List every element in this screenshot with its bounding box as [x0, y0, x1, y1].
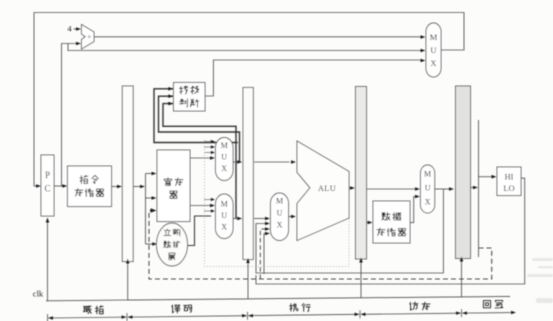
svg-text:U: U — [430, 45, 436, 55]
svg-text:X: X — [221, 164, 227, 173]
svg-text:ALU: ALU — [318, 184, 336, 193]
svg-text:HI: HI — [505, 172, 514, 182]
svg-text:P: P — [45, 170, 50, 180]
svg-text:M: M — [424, 170, 431, 179]
svg-text:clk: clk — [33, 289, 44, 299]
svg-text:X: X — [277, 221, 283, 230]
svg-text:+: + — [87, 32, 91, 41]
svg-text:LO: LO — [503, 183, 514, 193]
svg-text:M: M — [221, 200, 228, 209]
svg-text:M: M — [430, 32, 438, 42]
svg-text:U: U — [277, 209, 283, 218]
svg-text:X: X — [425, 198, 431, 207]
svg-text:U: U — [221, 153, 227, 162]
svg-text:C: C — [44, 184, 50, 194]
svg-text:U: U — [221, 211, 227, 220]
svg-text:M: M — [221, 141, 228, 150]
svg-text:X: X — [430, 58, 436, 68]
svg-text:X: X — [221, 223, 227, 232]
svg-text:U: U — [425, 184, 431, 193]
svg-text:M: M — [276, 197, 283, 206]
